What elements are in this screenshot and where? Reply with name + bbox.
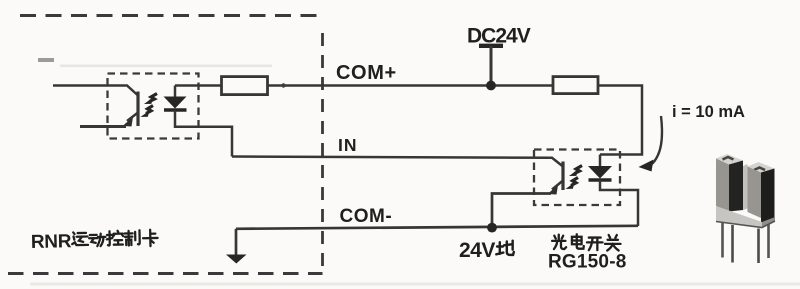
LED D2 triangle bbox=[588, 166, 612, 179]
wire: U2 emitter to 24V ground bbox=[492, 194, 551, 228]
wire: DC24V stem bbox=[490, 46, 493, 86]
wire: U1 collector input bbox=[53, 86, 138, 96]
svg-text:RG150-8: RG150-8 bbox=[548, 252, 627, 273]
CJK dong 动 bbox=[89, 234, 106, 247]
RNR card dashed border: top edge bbox=[20, 14, 325, 17]
svg-text:i = 10 mA: i = 10 mA bbox=[672, 103, 745, 121]
transistor Q2 base bar bbox=[561, 162, 564, 191]
sensor leg 3 bbox=[757, 229, 760, 264]
junction dot at 24V ground bbox=[487, 223, 497, 233]
sensor left tower top face bbox=[716, 154, 743, 166]
scan artifact faint streak bbox=[60, 65, 272, 68]
sensor base bottom edge bbox=[716, 221, 775, 228]
CJK yun 运 bbox=[72, 232, 88, 245]
current arrow curve i=10mA bbox=[651, 116, 662, 165]
photo interrupter sensor drawing bbox=[716, 154, 775, 263]
LED D2 anode wire bbox=[599, 155, 602, 167]
label photoelectric switch 光电开关 bbox=[552, 235, 566, 249]
sensor leg 2 bbox=[731, 225, 734, 263]
label RNR motion control card bbox=[31, 229, 158, 253]
wire: COM- drop to ground bbox=[235, 229, 238, 256]
svg-text:COM+: COM+ bbox=[336, 62, 397, 84]
CJK kong 控 bbox=[107, 231, 124, 246]
junction dot at DC24V / COM+ bbox=[486, 81, 496, 91]
LED D1 triangle bbox=[164, 97, 187, 109]
wire: U1 emitter output bbox=[80, 125, 126, 128]
sensor left tower front face bbox=[716, 159, 729, 212]
sensor left tower inner dark face bbox=[729, 161, 743, 212]
sensor right tower dark side face bbox=[761, 169, 775, 226]
wire: R2 to photo-switch LED anode bbox=[598, 86, 642, 155]
scan artifact dash near top-left bbox=[38, 58, 54, 62]
svg-text:RNR: RNR bbox=[31, 231, 72, 253]
CJK ka 卡 bbox=[143, 230, 158, 247]
svg-text:24V: 24V bbox=[459, 239, 495, 262]
transistor Q1 base bar bbox=[136, 92, 139, 127]
LED D1 cathode bar bbox=[164, 108, 187, 111]
RNR card dashed border: right edge bbox=[321, 33, 324, 272]
sensor leg 1 bbox=[721, 222, 724, 258]
ground arrow bbox=[226, 255, 247, 264]
light arrow 1 of U2 bbox=[567, 166, 582, 189]
sensor right tower front face bbox=[748, 167, 762, 219]
sensor leg 4 bbox=[767, 224, 770, 258]
LED D1 anode wire bbox=[174, 86, 177, 98]
junction blob on COM+ bbox=[281, 83, 285, 87]
transistor Q1 emitter bbox=[127, 113, 138, 122]
CJK di 地 bbox=[496, 241, 514, 255]
wire: D1 anode to resistor R1 bbox=[175, 84, 221, 87]
wire: D1 cathode to IN corner bbox=[175, 110, 232, 157]
transistor Q1 emitter arrow bbox=[123, 117, 134, 127]
sensor right tower slot mark bbox=[754, 168, 765, 171]
wire: COM+ line bbox=[268, 84, 554, 87]
wire: COM- line bbox=[236, 226, 638, 229]
optocoupler U1 dashed box bbox=[108, 74, 199, 139]
transistor Q2 emitter bbox=[552, 181, 563, 190]
bottom scan smudge bbox=[30, 283, 800, 286]
current arrow head bbox=[639, 160, 654, 172]
sensor base front face bbox=[716, 206, 762, 228]
transistor Q2 emitter arrow bbox=[548, 185, 559, 195]
optocoupler U2 dashed box bbox=[534, 150, 620, 206]
DC24V supply bar bbox=[479, 44, 503, 48]
resistor R1 bbox=[222, 77, 268, 95]
svg-text:COM-: COM- bbox=[340, 206, 393, 227]
sensor right tower top face bbox=[748, 162, 775, 174]
wire: IN line bbox=[232, 157, 563, 167]
sensor left tower slot mark bbox=[723, 157, 734, 160]
light arrow 1 of U1 bbox=[142, 94, 157, 117]
sensor slot interior lit band bbox=[743, 164, 748, 210]
sensor base right wedge bbox=[762, 217, 775, 228]
LED D2 cathode bar bbox=[589, 178, 612, 181]
resistor R2 bbox=[553, 77, 598, 94]
svg-text:IN: IN bbox=[338, 135, 358, 155]
wire: D2 cathode to COM- bbox=[600, 180, 638, 226]
RNR card dashed border: bottom edge bbox=[8, 272, 323, 275]
CJK zhi 制 bbox=[125, 230, 140, 245]
